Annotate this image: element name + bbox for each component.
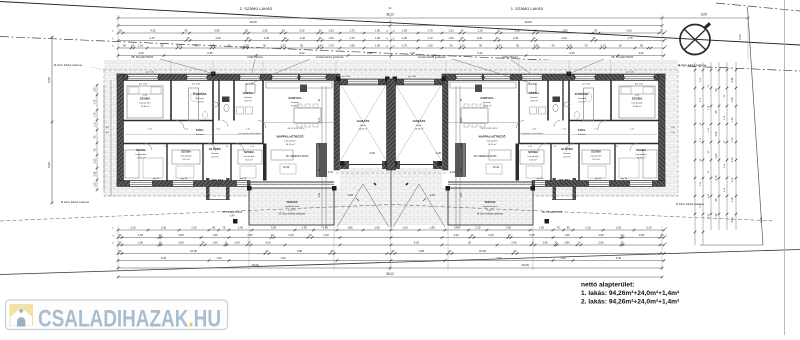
center driveway line (390, 170, 392, 228)
svg-text:2,40: 2,40 (288, 233, 294, 237)
annotation csatorna top-right (678, 63, 707, 67)
annotation üvegtégla right (502, 54, 530, 73)
svg-text:30: 30 (585, 43, 588, 47)
svg-text:6,40: 6,40 (161, 256, 167, 260)
paved walkway around building (textures) (104, 60, 678, 197)
svg-text:45: 45 (593, 36, 596, 40)
svg-text:1,95: 1,95 (212, 233, 218, 237)
interior wall: corridor bottom (519, 143, 659, 145)
svg-text:2,40: 2,40 (461, 192, 463, 197)
living room south glass wall (448, 181, 532, 183)
svg-text:lam.parkett: lam.parkett (140, 102, 151, 105)
svg-text:1,70: 1,70 (328, 43, 334, 47)
label 2. szamu lakas (240, 6, 273, 11)
svg-text:2,36: 2,36 (731, 77, 734, 82)
top chain row 4 (117, 51, 666, 57)
svg-text:Ø 12cm lefolyó csatorna: Ø 12cm lefolyó csatorna (477, 213, 503, 216)
furniture: kitchen counter (450, 82, 516, 88)
svg-text:30: 30 (468, 240, 471, 244)
building setback line (dash-dot, upper) (0, 37, 800, 72)
svg-text:FED. BEJ.: FED. BEJ. (559, 179, 571, 182)
svg-text:1,40: 1,40 (560, 256, 566, 260)
svg-text:45: 45 (195, 43, 198, 47)
svg-text:kerámia: kerámia (214, 184, 222, 186)
corridor tiny dims (148, 127, 635, 148)
svg-text:30: 30 (300, 43, 303, 47)
svg-text:3,85: 3,85 (562, 28, 568, 32)
svg-text:15: 15 (113, 234, 115, 236)
svg-text:2,70: 2,70 (94, 99, 97, 104)
svg-text:3,67 m²: 3,67 m² (244, 100, 252, 103)
annotation üvegtégla left (247, 54, 263, 73)
svg-text:SZOBA: SZOBA (528, 150, 538, 154)
svg-text:kerámia: kerámia (196, 133, 205, 136)
outer wall left (117, 74, 124, 186)
svg-text:2,40: 2,40 (319, 192, 321, 197)
svg-text:3,20: 3,20 (638, 51, 644, 55)
furniture: bed master (619, 86, 655, 118)
outer wall top (left apt) (442, 74, 665, 81)
svg-text:13,00 m²: 13,00 m² (288, 209, 296, 212)
svg-text:3,10: 3,10 (731, 157, 734, 162)
living room south glass wall (250, 181, 334, 183)
svg-text:8,00: 8,00 (731, 217, 734, 222)
interior wall szoba/fürdő (610, 80, 612, 121)
svg-text:SZOBA: SZOBA (244, 150, 254, 154)
rear setback dashed line right (391, 205, 772, 221)
svg-text:pny 90: pny 90 (537, 178, 544, 180)
svg-text:4,20: 4,20 (561, 36, 567, 40)
annotation VB pillér right (571, 54, 634, 73)
svg-text:30: 30 (319, 36, 322, 40)
svg-text:2,40: 2,40 (234, 240, 240, 244)
svg-text:90: 90 (640, 43, 643, 47)
interior wall házt/konyha (518, 80, 520, 144)
svg-text:TERASZ: TERASZ (286, 200, 297, 204)
svg-text:3,30: 3,30 (715, 131, 718, 136)
svg-text:6,00: 6,00 (701, 13, 707, 17)
svg-text:KÖZL.: KÖZL. (578, 127, 587, 132)
svg-text:30: 30 (119, 28, 122, 32)
svg-text:3,85: 3,85 (297, 249, 303, 253)
roof eaves dashed outline (104, 70, 678, 196)
svg-text:hőszigetelt parkettabejáró: hőszigetelt parkettabejáró (239, 132, 263, 135)
outer wall bottom (left apt) (117, 181, 250, 187)
svg-text:2,40: 2,40 (488, 233, 494, 237)
east lot boundary (near-vertical) (700, 7, 763, 245)
svg-text:45: 45 (552, 43, 555, 47)
svg-text:1. lakás: 94,26m²+24,0m²+1,4m²: 1. lakás: 94,26m²+24,0m²+1,4m² (581, 290, 680, 297)
svg-text:lam.parkett: lam.parkett (636, 153, 647, 156)
svg-text:30: 30 (516, 43, 519, 47)
left dimension column (94, 80, 112, 196)
svg-text:11: 11 (225, 240, 228, 244)
annotation csatorna top-left (54, 63, 104, 70)
area summary text (581, 281, 680, 305)
svg-text:2,30: 2,30 (300, 36, 306, 40)
svg-text:pm 1,50: pm 1,50 (146, 72, 155, 74)
svg-text:1,30: 1,30 (448, 28, 454, 32)
svg-text:2. lakás: 94,26m²+24,0m²+1,4m²: 2. lakás: 94,26m²+24,0m²+1,4m² (581, 298, 680, 305)
svg-text:10: 10 (621, 233, 624, 237)
svg-text:-0,33: -0,33 (327, 170, 333, 174)
svg-text:nettó alapterület:: nettó alapterület: (581, 281, 635, 288)
svg-text:4,20: 4,20 (323, 233, 329, 237)
svg-text:pny 90: pny 90 (181, 178, 188, 180)
svg-text:15: 15 (666, 45, 668, 47)
svg-text:2,30: 2,30 (264, 36, 270, 40)
svg-text:TERASZ: TERASZ (484, 200, 495, 204)
watermark box (6, 300, 228, 330)
svg-text:18: 18 (619, 43, 622, 47)
svg-text:1,60: 1,60 (539, 225, 545, 229)
svg-text:kerámia: kerámia (578, 133, 587, 136)
svg-text:±0,00: ±0,00 (283, 165, 290, 169)
svg-text:pm 1,50: pm 1,50 (139, 84, 148, 86)
svg-text:beton: beton (360, 124, 366, 127)
svg-text:6,42: 6,42 (299, 51, 305, 55)
svg-text:kerámia: kerámia (530, 96, 539, 99)
svg-text:6,42: 6,42 (477, 51, 483, 55)
svg-text:VB. PILLÉR 20X20: VB. PILLÉR 20X20 (287, 127, 305, 130)
svg-text:19,06: 19,06 (524, 20, 532, 24)
terrace outline (448, 188, 533, 225)
svg-text:2-08: 2-08 (635, 95, 640, 97)
svg-text:KONYHA: KONYHA (480, 96, 494, 100)
svg-text:VB. GERENDA 30X45: VB. GERENDA 30X45 (286, 155, 310, 158)
svg-text:2,10: 2,10 (191, 225, 197, 229)
svg-text:30: 30 (660, 28, 663, 32)
garage window top (404, 80, 434, 85)
top dimension line 19,06 x2 (117, 20, 664, 27)
wall 120/150 labels (105, 127, 675, 134)
svg-text:7,60: 7,60 (496, 256, 502, 260)
svg-text:lam.parkett: lam.parkett (136, 153, 147, 156)
svg-text:1,90: 1,90 (375, 28, 381, 32)
svg-text:3,00: 3,00 (506, 225, 512, 229)
pillars (VB pillér) (567, 72, 572, 77)
kitchen-nappali boundary line (263, 122, 334, 124)
partition elöter right (230, 144, 232, 181)
svg-text:2,30: 2,30 (478, 28, 484, 32)
interior wall wc left (218, 80, 220, 121)
svg-text:30: 30 (387, 45, 389, 47)
svg-text:-0,33: -0,33 (449, 170, 455, 174)
svg-text:kerámia: kerámia (483, 101, 492, 104)
compass / north arrow (680, 22, 711, 55)
svg-text:1,10: 1,10 (94, 122, 97, 127)
svg-text:2,60: 2,60 (138, 240, 144, 244)
svg-text:30: 30 (496, 36, 499, 40)
svg-text:kerámia: kerámia (578, 97, 587, 100)
svg-text:lam.parkett: lam.parkett (487, 140, 498, 143)
svg-text:SZOBA: SZOBA (591, 150, 601, 154)
svg-text:Ø 12cm lefolyó csatorna: Ø 12cm lefolyó csatorna (279, 213, 305, 216)
svg-text:30: 30 (248, 240, 251, 244)
svg-text:2,60: 2,60 (598, 240, 604, 244)
svg-text:1,85: 1,85 (347, 225, 353, 229)
svg-text:1,85: 1,85 (429, 225, 435, 229)
furniture: wc toilet (553, 104, 558, 111)
svg-text:1,00: 1,00 (94, 87, 97, 92)
svg-text:-0,30: -0,30 (369, 151, 375, 155)
svg-text:30: 30 (247, 36, 250, 40)
interior wall wc/házt (547, 80, 549, 121)
svg-text:15: 15 (666, 37, 668, 39)
svg-text:-0,46: -0,46 (347, 193, 353, 197)
svg-text:1,30: 1,30 (448, 36, 454, 40)
furniture: bath wc (574, 112, 579, 119)
svg-text:1,30: 1,30 (328, 28, 334, 32)
annotation gázkazán left (252, 55, 344, 83)
svg-text:30: 30 (534, 28, 537, 32)
svg-text:kerámia: kerámia (563, 152, 572, 155)
svg-text:30: 30 (202, 240, 205, 244)
svg-text:15: 15 (666, 227, 668, 229)
svg-text:1,30: 1,30 (475, 225, 481, 229)
svg-text:7,60: 7,60 (280, 256, 286, 260)
svg-text:pm 1,80: pm 1,80 (408, 76, 417, 78)
svg-text:4,10: 4,10 (731, 177, 734, 182)
furniture: bath sink (564, 102, 570, 107)
garage floor diagonals (341, 85, 386, 160)
furniture: bath tub (189, 88, 199, 121)
svg-text:1,65: 1,65 (323, 225, 329, 229)
right apartment geometry (mirrored) (391, 72, 665, 229)
svg-text:15: 15 (113, 37, 115, 39)
site boundary front (solid slanted line, top) (0, 2, 800, 46)
svg-text:VB. GERENDA 30X45: VB. GERENDA 30X45 (474, 155, 498, 158)
svg-text:1,40: 1,40 (212, 240, 218, 244)
svg-text:2,60: 2,60 (639, 233, 645, 237)
svg-text:6,00: 6,00 (47, 77, 51, 83)
svg-text:2,30: 2,30 (513, 36, 519, 40)
svg-text:1,90: 1,90 (349, 43, 355, 47)
fed.bej porch walls (206, 178, 210, 200)
svg-text:4,20: 4,20 (414, 240, 420, 244)
windows top wall (128, 75, 158, 80)
bottom dimension 38,12 (117, 272, 664, 279)
svg-text:HÁZT.H.: HÁZT.H. (243, 90, 254, 95)
svg-text:pny 90: pny 90 (240, 178, 247, 180)
annotation csatorna terrace-left (279, 213, 305, 216)
svg-text:2,30: 2,30 (515, 28, 521, 32)
svg-text:1,30: 1,30 (427, 43, 433, 47)
wc room dark sign (553, 97, 561, 103)
partition bottom rooms 1 (614, 144, 616, 181)
svg-text:3,85: 3,85 (533, 43, 539, 47)
garage front wall + door (340, 161, 349, 169)
svg-text:SZOBA: SZOBA (140, 97, 151, 101)
svg-text:3,85: 3,85 (214, 28, 220, 32)
terrace paving left (249, 188, 334, 225)
svg-text:6,40: 6,40 (616, 256, 622, 260)
svg-text:pm 1,50: pm 1,50 (635, 84, 644, 86)
furniture: kitchen table (461, 108, 488, 123)
svg-text:30: 30 (392, 249, 395, 253)
svg-text:ELŐTÉR: ELŐTÉR (561, 146, 572, 151)
svg-text:2,10: 2,10 (585, 225, 591, 229)
row-end tiny rotated marks (113, 30, 669, 244)
bottom chain row 2 (117, 233, 666, 239)
svg-text:30: 30 (228, 43, 231, 47)
svg-text:4,20: 4,20 (453, 233, 459, 237)
svg-text:2,70: 2,70 (731, 97, 734, 102)
svg-text:38,12: 38,12 (386, 13, 394, 17)
svg-text:fagyálló kerámia: fagyálló kerámia (483, 206, 498, 208)
svg-text:1,90: 1,90 (402, 225, 408, 229)
svg-text:lam.parkett: lam.parkett (632, 102, 643, 105)
svg-text:30: 30 (555, 240, 558, 244)
svg-text:pm 1,80: pm 1,80 (342, 76, 351, 78)
svg-text:1,70: 1,70 (402, 43, 408, 47)
svg-text:3,00: 3,00 (410, 51, 416, 55)
garage top wall (391, 79, 446, 85)
svg-text:30: 30 (461, 28, 464, 32)
svg-text:9,12 m²: 9,12 m² (592, 158, 600, 161)
kitchen stove dark unit (300, 85, 307, 93)
svg-text:fagyálló kerámia: fagyálló kerámia (285, 206, 300, 208)
furniture: boiler házt (246, 84, 255, 93)
svg-text:2,20: 2,20 (161, 225, 167, 229)
svg-text:2. SZÁMÚ LAKÁS: 2. SZÁMÚ LAKÁS (240, 6, 273, 11)
extension verticals bottom (118, 226, 662, 270)
svg-text:1,20: 1,20 (94, 182, 97, 187)
windows top wall (624, 75, 654, 80)
svg-text:10: 10 (471, 233, 474, 237)
svg-text:2,60: 2,60 (138, 233, 144, 237)
svg-text:30: 30 (266, 249, 269, 253)
furniture: bath tub (584, 88, 594, 121)
bottom chain row 3 (117, 240, 666, 246)
svg-text:4,15: 4,15 (759, 217, 763, 223)
svg-text:NAPPALI+ÉTKEZŐ: NAPPALI+ÉTKEZŐ (479, 134, 507, 139)
page frame line right (784, 0, 786, 335)
svg-text:1,30: 1,30 (328, 36, 334, 40)
annotation csatorna bottom-left (61, 200, 90, 204)
svg-text:38,12: 38,12 (386, 272, 394, 276)
partition bottom rooms 1 (166, 144, 168, 181)
svg-text:11: 11 (532, 240, 535, 244)
svg-text:hőszigetelt parkettabejáró: hőszigetelt parkettabejáró (521, 132, 545, 135)
svg-text:1,60: 1,60 (238, 225, 244, 229)
svg-text:2,95: 2,95 (247, 233, 253, 237)
level marks (283, 151, 500, 197)
svg-text:SZOBA: SZOBA (181, 150, 191, 154)
svg-text:65: 65 (212, 225, 215, 229)
svg-text:10: 10 (508, 233, 511, 237)
svg-text:30: 30 (387, 37, 389, 39)
interior wall fürdő/wc (212, 80, 214, 144)
room labels right apartment (413, 90, 647, 212)
svg-text:SZOBA: SZOBA (136, 148, 146, 152)
svg-text:15: 15 (113, 242, 115, 244)
svg-text:45: 45 (594, 28, 597, 32)
partition bottom rooms 2 (202, 144, 204, 181)
outer wall bottom (left apt) (532, 181, 665, 187)
furniture: wc toilet (224, 104, 229, 111)
annotation csatorna terrace-right (477, 213, 503, 216)
svg-text:2,80: 2,80 (598, 233, 604, 237)
svg-text:10,00: 10,00 (190, 249, 197, 253)
svg-text:pny 90: pny 90 (595, 178, 602, 180)
svg-text:2,50: 2,50 (461, 142, 463, 147)
svg-text:1,40: 1,40 (216, 256, 222, 260)
windows bottom wall (630, 181, 652, 186)
windows bottom wall (130, 181, 152, 186)
svg-text:2,30: 2,30 (280, 43, 286, 47)
svg-text:2,10: 2,10 (138, 43, 144, 47)
terrace paving right (448, 188, 533, 225)
svg-text:30: 30 (245, 28, 248, 32)
annotation VB gerenda left (286, 155, 310, 158)
driveway slope triangle (393, 184, 445, 227)
label 1. szamu lakas (511, 6, 544, 11)
annotation VB pillér 30x25 bottom-right (542, 211, 563, 214)
svg-text:Ø 12cm lefolyó csatorna: Ø 12cm lefolyó csatorna (61, 200, 90, 204)
svg-text:6,00: 6,00 (461, 117, 463, 122)
svg-text:4,20: 4,20 (150, 28, 156, 32)
furniture: boiler házt (527, 84, 536, 93)
svg-text:9,01 m²: 9,01 m² (529, 159, 537, 162)
svg-text:1,70: 1,70 (94, 112, 97, 117)
center mark 2x (389, 6, 393, 10)
svg-text:10: 10 (578, 240, 581, 244)
svg-text:6,45: 6,45 (207, 51, 213, 55)
svg-text:2-08: 2-08 (143, 95, 148, 97)
right dimension columns (694, 34, 763, 245)
rear setback dashed line left (0, 205, 391, 222)
svg-text:4,20: 4,20 (176, 43, 182, 47)
svg-text:90: 90 (123, 43, 126, 47)
svg-text:4,20: 4,20 (215, 36, 221, 40)
svg-text:18,74 m²: 18,74 m² (286, 143, 295, 146)
center driveway line (390, 170, 392, 228)
svg-text:30: 30 (331, 249, 334, 253)
svg-text:15: 15 (113, 30, 115, 32)
furniture: bath sink (212, 102, 218, 107)
svg-text:13,66 m²: 13,66 m² (137, 157, 146, 160)
partition szoba3/nappali (516, 144, 520, 181)
svg-text:13,66 m²: 13,66 m² (637, 157, 646, 160)
svg-text:13,00 m²: 13,00 m² (486, 209, 494, 212)
bottom dimension 19,06 x2 (117, 263, 664, 270)
svg-text:GARÁZS: GARÁZS (357, 118, 370, 123)
outer wall left (659, 74, 666, 186)
svg-text:10,48 m²: 10,48 m² (291, 105, 300, 108)
svg-text:30: 30 (263, 43, 266, 47)
svg-text:pm 1,30: pm 1,30 (245, 84, 254, 86)
svg-text:6,00: 6,00 (738, 34, 742, 40)
svg-text:lam.parkett: lam.parkett (591, 155, 602, 158)
top dimension line total 38,12 (117, 13, 750, 20)
svg-text:30: 30 (514, 249, 517, 253)
kitchen stove dark unit (475, 85, 482, 93)
furniture: kitchen table (294, 108, 321, 123)
svg-text:-0,46: -0,46 (429, 193, 435, 197)
svg-text:Ø 12cm lefolyó csatorna: Ø 12cm lefolyó csatorna (678, 63, 707, 67)
room labels left apartment (136, 90, 370, 212)
svg-text:45: 45 (185, 28, 188, 32)
pillars (VB pillér) (211, 72, 216, 77)
bottom chain row 4 (117, 249, 666, 255)
svg-text:10: 10 (309, 233, 312, 237)
svg-text:10: 10 (159, 233, 162, 237)
svg-text:1,65: 1,65 (454, 225, 460, 229)
svg-text:24,00 m²: 24,00 m² (415, 128, 424, 131)
kitchen-garage wall (443, 80, 449, 170)
svg-text:75: 75 (222, 225, 225, 229)
